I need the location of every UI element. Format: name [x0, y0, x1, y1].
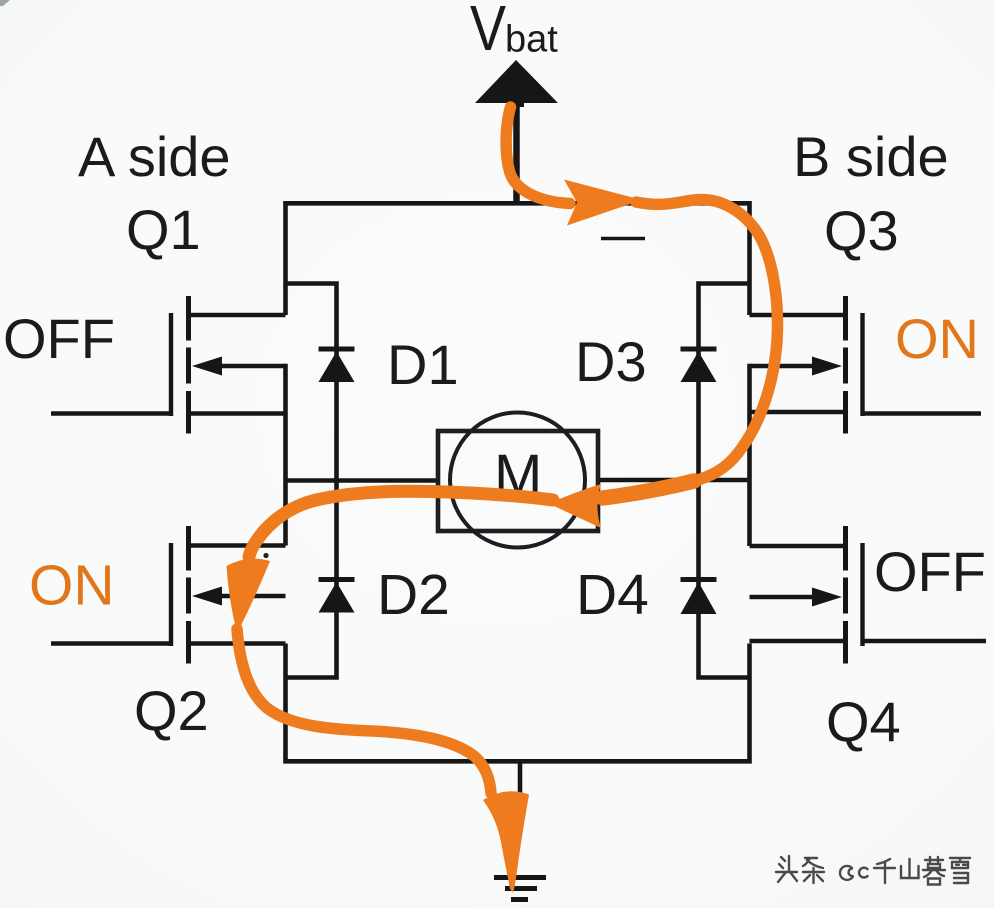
svg-text:Q2: Q2 [134, 679, 209, 742]
current flow arrowhead left (motor) [549, 484, 601, 528]
svg-text:V: V [470, 0, 506, 64]
svg-text:OFF: OFF [874, 540, 986, 603]
wire D3 branch top [699, 284, 750, 481]
motor M1 body [438, 413, 598, 548]
watermark 头条 @c千山暮雪 [776, 856, 970, 885]
diode D2 [319, 580, 355, 613]
transistor Q4 [750, 526, 987, 664]
svg-text:Q4: Q4 [826, 690, 901, 753]
wire bottom rail ground [286, 644, 750, 762]
svg-text:D2: D2 [377, 563, 450, 627]
svg-text:Q3: Q3 [824, 199, 899, 262]
current flow arrowhead down (Q2) [227, 559, 271, 634]
current flow arrowhead down (ground) [483, 791, 529, 892]
svg-text:D1: D1 [387, 333, 459, 396]
node stray dot [263, 553, 268, 558]
wire D2 vertical and bottom branch [286, 480, 337, 678]
wire D1 branch top [286, 284, 337, 481]
power symbol Vbat arrow [475, 60, 558, 107]
current flow path from Vbat through Q3 (orange) [237, 107, 777, 793]
svg-text:D4: D4 [576, 563, 649, 627]
corner smudge [0, 0, 10, 6]
svg-text:Q1: Q1 [126, 198, 201, 261]
ground symbol [494, 878, 546, 900]
svg-text:OFF: OFF [3, 307, 115, 370]
diode D4 [681, 580, 717, 615]
svg-text:B side: B side [793, 125, 949, 188]
svg-text:D3: D3 [575, 330, 647, 393]
wire top rail Vbat [286, 203, 750, 315]
svg-text:A side: A side [78, 125, 231, 188]
transistor Q2 [51, 526, 286, 664]
wire ground stem [518, 760, 523, 794]
svg-text:ON: ON [29, 554, 115, 618]
svg-text:bat: bat [505, 19, 558, 61]
diode D3 [681, 349, 717, 382]
wire motor node B horizontal [598, 366, 752, 546]
wire Vbat stem [513, 100, 520, 201]
label Vbat [470, 0, 558, 64]
svg-text:ON: ON [895, 307, 979, 370]
transistor Q1 [51, 296, 286, 434]
transistor Q3 [750, 296, 982, 434]
wire motor node A horizontal [283, 366, 440, 546]
current flow arrowhead right (top) [564, 180, 642, 226]
diode D1 [319, 349, 355, 382]
wire D4 vertical and bottom branch [699, 480, 750, 678]
node stray dash [601, 237, 645, 240]
